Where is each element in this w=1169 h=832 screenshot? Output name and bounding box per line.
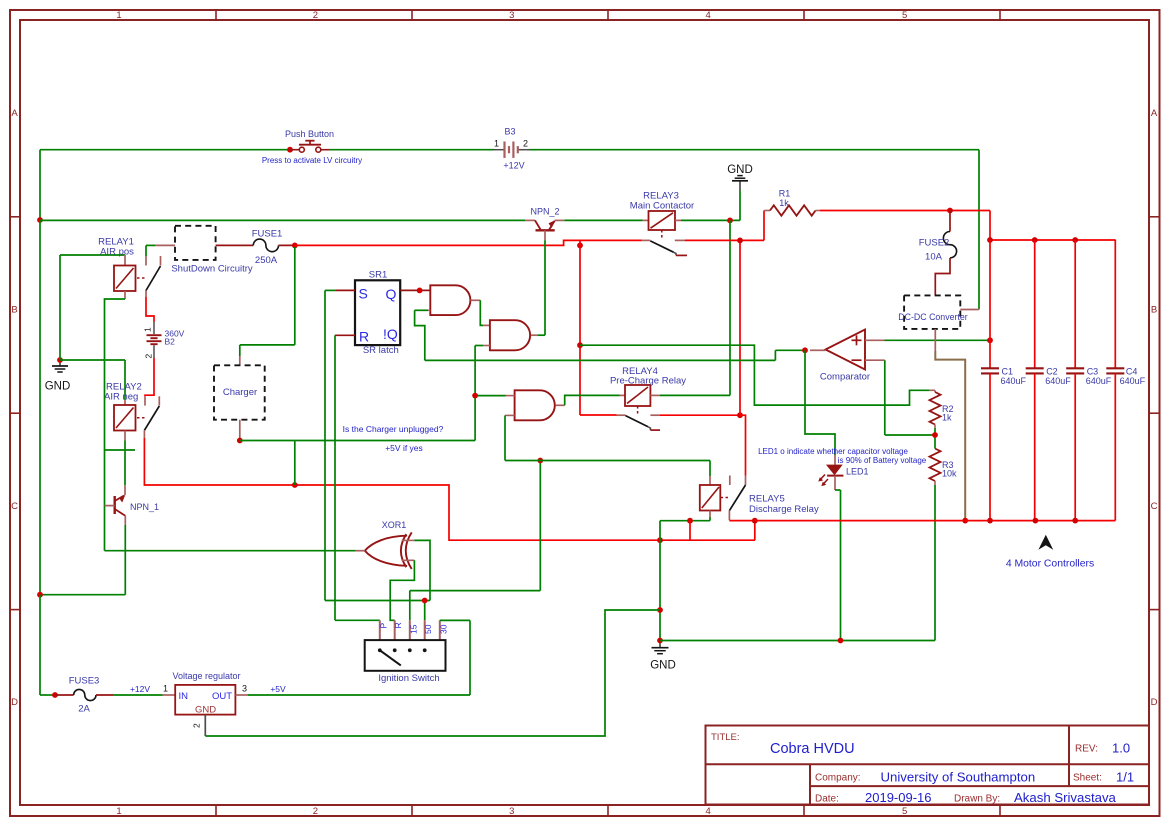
wire NPN_1 emitter to left rail [40,525,125,595]
svg-text:2: 2 [192,723,202,728]
svg-text:1: 1 [163,684,168,694]
wire ignition 15 to +5 net [410,461,541,621]
svg-text:B2: B2 [165,336,176,346]
svg-text:1: 1 [116,806,121,817]
relay RELAY2 coil [104,381,146,440]
capacitor C4 640uF [1106,240,1145,521]
svg-text:GND: GND [45,381,71,393]
junction relay5 net [537,458,543,464]
svg-text:GND: GND [650,660,676,672]
motor controller arrow [1006,535,1094,570]
wire Q output [400,289,430,291]
svg-text:Discharge Relay: Discharge Relay [749,504,819,515]
wire capacitor bottom rail [755,520,1116,522]
bus DC-DC output [935,351,965,521]
wire charger sense [240,441,475,486]
wire RELAY1 coil bottom down [105,299,126,551]
junction C3 top [1072,237,1078,243]
svg-text:1: 1 [494,138,499,148]
note LED purpose [758,447,927,465]
junction discharge loop left [687,518,693,524]
junction FUSE1 out [292,243,298,249]
wire comparator out to LED [805,350,835,455]
wire RELAY2 coil bottom to NPN_1 collector [124,440,126,485]
junction Q output [417,288,423,294]
svg-text:640uF: 640uF [1120,376,1146,386]
svg-text:A: A [11,108,18,119]
svg-text:ShutDown Circuitry: ShutDown Circuitry [171,264,253,275]
svg-text:C: C [11,501,18,512]
wire R3 to GND rail [934,485,936,641]
svg-text:SR1: SR1 [369,269,387,280]
wire AND1 output to AND2 [470,300,490,325]
wire RELAY5 contact to rail [729,520,754,522]
wire R input [335,335,355,620]
note charger [343,424,444,453]
wire RELAY2 contact to HV- rail [144,438,755,540]
svg-text:R: R [393,622,403,628]
wire AND3 input1 from charger sense [475,346,514,441]
svg-text:Q: Q [386,286,397,302]
ground GND top [727,164,753,220]
svg-text:5: 5 [902,806,907,817]
svg-text:!Q: !Q [383,326,398,342]
wire ShutDown left to RELAY1 contact [146,244,175,246]
junction GND rail crossing [657,537,663,543]
svg-text:Company:: Company: [815,773,861,784]
junction regulator GND tap [657,607,663,613]
svg-text:NPN_2: NPN_2 [530,206,559,216]
fuse FUSE3 2A [55,676,113,715]
svg-text:Akash Srivastava: Akash Srivastava [1014,790,1117,805]
junction DC-DC to rail [962,518,968,524]
wire FUSE3 to regulator [113,694,163,696]
wire RELAY3 contact to R1 [685,211,764,241]
svg-text:S: S [359,285,368,301]
svg-text:Comparator: Comparator [820,371,870,382]
svg-text:640uF: 640uF [1001,376,1027,386]
relay RELAY4 coil [610,366,686,415]
wire stub at NPN_1 [105,449,136,451]
junction divider [932,432,938,438]
svg-text:3: 3 [509,806,514,817]
svg-text:2: 2 [313,10,318,21]
wire XOR1 input1 [402,540,430,600]
junction HV- rail [292,482,298,488]
svg-text:Ignition Switch: Ignition Switch [378,673,439,684]
svg-text:Is the Charger unplugged?: Is the Charger unplugged? [343,424,444,434]
svg-text:XOR1: XOR1 [382,520,407,530]
svg-text:4: 4 [706,806,711,817]
svg-text:15: 15 [408,624,418,634]
svg-text:50: 50 [423,624,433,634]
wire ignition 30 to +5V [440,620,470,695]
transistor NPN_1 [105,485,159,525]
wire NPN_2 to RELAY3 coil [564,219,642,221]
svg-text:C: C [1151,501,1158,512]
junction left rail [37,217,43,223]
gate AND1 [430,285,470,315]
svg-text:1: 1 [116,10,121,21]
svg-text:B: B [11,304,17,315]
wire +5V [248,684,470,695]
junction comparator output [802,347,808,353]
svg-text:2019-09-16: 2019-09-16 [865,790,932,805]
junction discharge loop right [752,518,758,524]
battery B2 360V [143,322,185,359]
wire RELAY3 junction down to RELAY4 [660,220,730,395]
junction capacitor sense [987,337,993,343]
wire discharge loop [690,521,755,541]
wire XOR1 output to NPN_1 base net [105,550,356,552]
battery B3 +12V [494,126,529,170]
block Charger [214,356,265,441]
svg-text:LED1: LED1 [846,466,869,476]
junction GND symbol [657,638,663,644]
svg-text:is 90% of Battery voltage: is 90% of Battery voltage [838,456,927,465]
regulator U2 [130,671,248,736]
svg-text:1k: 1k [942,413,952,423]
wire regulator GND return [205,610,660,736]
wire ignition P [335,619,380,621]
junction C2 top [1032,237,1038,243]
svg-text:Date:: Date: [815,794,839,805]
svg-text:GND: GND [727,164,753,176]
wire +12V top rail left [40,150,289,220]
junction charger bottom [237,438,243,444]
wire B3 to DC-DC converter input [529,150,979,310]
ground GND ignition [650,641,676,672]
svg-text:1/1: 1/1 [1116,770,1134,785]
svg-text:+12V: +12V [503,161,524,171]
wire capacitor top rail [990,239,1116,241]
svg-text:1: 1 [143,327,153,332]
switch Ignition Switch [365,620,449,684]
wire B2 to RELAY2 contact [145,358,154,396]
junction comparator feed [577,342,583,348]
svg-text:10k: 10k [942,468,957,478]
junction LED GND [838,638,844,644]
wire GND to RELAY1 coil top [60,255,125,360]
junction C1 top [987,237,993,243]
svg-text:FUSE1: FUSE1 [252,229,283,240]
wire R2 to R3 [934,428,936,449]
capacitor C3 640uF [1066,240,1112,521]
wire feedback net [425,359,776,361]
svg-text:SR latch: SR latch [363,345,399,356]
svg-text:GND: GND [195,705,216,716]
svg-text:A: A [1151,108,1158,119]
svg-text:Press to activate LV circuitry: Press to activate LV circuitry [262,156,362,165]
relay RELAY1 contact [146,245,161,297]
junction FUSE3 [52,692,58,698]
svg-text:Drawn By:: Drawn By: [954,794,1000,805]
wire GND to RELAY2 coil top [60,360,125,400]
LED LED1 [818,455,868,490]
wire latch S net to ignition 50 [325,601,430,621]
junction RELAY3 right [727,218,733,224]
block ShutDown Circuitry [171,226,253,275]
fuse FUSE1 250A [216,229,295,266]
capacitor C2 640uF [1026,240,1072,521]
ground GND left [45,360,71,393]
wire battery sense to R2 [580,345,929,405]
svg-text:10A: 10A [925,252,943,263]
svg-text:LED1 o indicate whether capaci: LED1 o indicate whether capacitor voltag… [758,447,908,456]
junction RELAY5 feed [737,412,743,418]
svg-text:+12V: +12V [130,684,150,694]
svg-text:FUSE3: FUSE3 [69,676,100,687]
junction C3 bottom [1072,518,1078,524]
wire GND vertical [659,521,661,641]
relay RELAY1 coil [98,236,146,299]
svg-text:2: 2 [144,354,154,359]
transistor NPN_2 [525,206,564,240]
wire LED to GND rail [835,490,841,641]
svg-text:Sheet:: Sheet: [1073,773,1102,784]
svg-text:University of Southampton: University of Southampton [881,770,1036,785]
svg-text:DC-DC Converter: DC-DC Converter [898,312,967,322]
svg-text:R: R [359,328,369,344]
svg-text:B: B [1151,304,1157,315]
svg-text:B3: B3 [504,126,515,136]
svg-text:1.0: 1.0 [1112,741,1130,756]
wire AND3 input2 from relay5 net [505,415,515,460]
svg-text:AIR neg: AIR neg [104,392,138,403]
relay RELAY2 contact [144,396,159,438]
junction GND left [57,357,63,363]
wire left rail to FUSE3 [40,595,55,695]
svg-text:2: 2 [523,138,528,148]
gate XOR1 [356,520,412,569]
gate AND3 [515,390,555,420]
wire comparator output [775,350,805,360]
svg-text:Pre-Charge Relay: Pre-Charge Relay [610,376,686,387]
wire FUSE1 to charger top [240,247,295,356]
wire AND1 input2 from comparator net [415,310,431,360]
svg-text:Voltage regulator: Voltage regulator [172,671,240,681]
svg-text:3: 3 [509,10,514,21]
svg-text:D: D [1151,697,1158,708]
wire AND2 output to NPN_2 base [531,240,545,335]
svg-text:AIR pos: AIR pos [100,247,134,258]
junction C1 bottom [987,518,993,524]
svg-text:D: D [11,697,18,708]
junction FUSE2 tap [947,208,953,214]
svg-text:640uF: 640uF [1086,376,1112,386]
svg-text:FUSE2: FUSE2 [919,238,950,249]
resistor R1 1k [764,189,820,216]
svg-text:Main Contactor: Main Contactor [630,201,694,212]
resistor R2 1k [929,390,954,428]
svg-text:Cobra HVDU: Cobra HVDU [770,741,855,757]
junction HV+ top [737,238,743,244]
wire AND3 output to RELAY4 coil [555,395,625,405]
title block [706,726,1150,806]
relay RELAY5 contact [729,476,745,521]
capacitor C1 640uF [981,240,1027,521]
wire RELAY3 coil to GND junction [681,219,740,221]
svg-text:REV:: REV: [1075,744,1098,755]
svg-text:250A: 250A [255,255,278,266]
wire coil bottom to GND net [660,517,710,521]
svg-text:640uF: 640uF [1045,376,1071,386]
wire HV+ down branch [580,240,617,415]
relay RELAY3 contact [642,240,688,255]
push button SW1 [262,129,362,165]
gate AND2 [490,320,530,350]
svg-text:5: 5 [902,10,907,21]
svg-text:R1: R1 [779,189,791,199]
resistor R3 10k [930,449,958,486]
wire GND rail right [660,640,935,642]
relay RELAY3 coil [630,190,694,239]
block DC-DC Converter [898,295,979,351]
svg-text:Push Button: Push Button [285,129,334,139]
svg-text:+5V: +5V [270,684,286,694]
wire R1 to caps [820,211,990,241]
junction ignition 50 [422,598,428,604]
svg-text:TITLE:: TITLE: [711,732,740,743]
wire left rail down [39,220,41,595]
junction push-button left [287,147,293,153]
fuse FUSE2 10A [919,211,957,296]
wire comparator plus input [885,339,991,341]
junction left rail bottom [37,592,43,598]
wire HV+ mid down [739,240,741,415]
svg-text:4 Motor Controllers: 4 Motor Controllers [1006,558,1094,569]
wire down to RELAY5 contact [740,415,746,475]
svg-text:4: 4 [706,10,711,21]
wire S input [325,290,355,600]
relay RELAY5 coil [700,461,819,518]
wire +12V switched to NPN_2 [40,219,525,221]
svg-text:2: 2 [313,806,318,817]
wire XOR1 input2 [390,560,414,620]
svg-text:Charger: Charger [223,387,257,398]
svg-text:3: 3 [242,684,247,694]
comparator U1 [810,330,885,383]
latch SR1 [355,269,400,356]
relay RELAY4 contact [617,415,661,430]
wire relay5 net [505,460,710,462]
junction AND3 input1 [472,393,478,399]
wire RELAY1 contact to B2 [146,297,154,322]
svg-text:OUT: OUT [212,691,232,702]
svg-text:NPN_1: NPN_1 [130,502,159,512]
svg-text:IN: IN [179,691,189,702]
wire comparator minus to divider [885,360,935,435]
svg-text:+5V if yes: +5V if yes [385,443,423,453]
junction HV+ branch [577,243,583,249]
wire HV+ to RELAY3 contact [295,240,642,245]
svg-text:P: P [378,623,388,629]
svg-text:2A: 2A [78,704,90,715]
wire AND2 input2 [475,345,490,347]
wire RELAY4 contact to RELAY5 [660,414,740,416]
svg-text:30: 30 [438,624,448,634]
svg-text:1k: 1k [779,198,789,208]
wire push button to B3 [329,149,494,151]
junction C2 bottom [1033,518,1039,524]
